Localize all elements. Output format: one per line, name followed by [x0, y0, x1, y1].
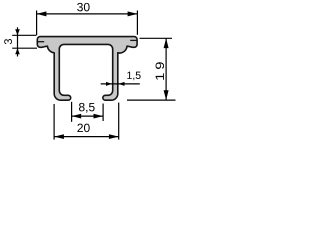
dim 19: extension lines [140, 37, 173, 39]
dim 3: text (rotated) [4, 39, 12, 44]
dim 8,5: extension lines [71, 102, 73, 122]
hat profile cross-section technical drawing [0, 0, 182, 149]
dim 1,5: text [127, 72, 140, 81]
dim 3: dimension line with outside arrows [17, 27, 19, 56]
hem fold line right [130, 39, 137, 41]
dim 1,5: leader line with inward arrows at right leg [101, 83, 140, 85]
dim 8,5: text [79, 103, 95, 113]
dim 19: text (rotated) [156, 62, 165, 80]
dim 3: extension lines [12, 34, 36, 36]
dim 20: text [77, 124, 89, 132]
dim 20: dimension line with arrows [54, 136, 119, 138]
dim 30: text [77, 3, 89, 12]
hem fold line left [37, 41, 44, 43]
dim 30: dimension line with arrows [37, 13, 138, 15]
dim 19: dimension line with arrows [165, 38, 167, 100]
dim 8,5: dimension line with arrows [72, 115, 104, 117]
profile body (hat rail cross-section), gray fill with dark outline [37, 37, 137, 101]
dim 20: extension lines [53, 104, 55, 140]
dim 30: extension lines [36, 11, 38, 36]
